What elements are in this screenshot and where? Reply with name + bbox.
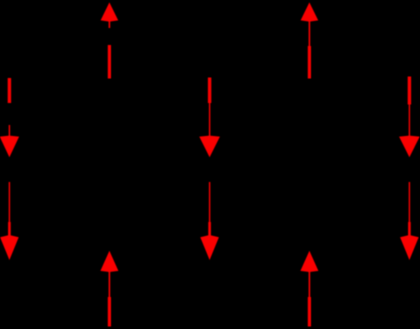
spin arrow down S1a (upper row, column 1) <box>0 78 19 157</box>
spin arrow up S2b (bottom, column 2) <box>100 251 118 327</box>
spin arrow down S3a (upper row, column 3) <box>199 78 220 158</box>
spin arrow up S4a (top, column 4) <box>301 2 319 78</box>
spin arrow down S3b (lower row, column 3) <box>200 182 219 260</box>
spin arrow down S5b (lower row, column 5) <box>400 182 419 260</box>
spin arrow down S1b (lower row, column 1) <box>0 182 19 260</box>
spin arrow up S4b (bottom, column 4) <box>300 251 318 327</box>
spin arrow down S5a (upper row, column 5) <box>399 77 420 158</box>
spin arrow up S2a (top, column 2) <box>101 2 119 78</box>
